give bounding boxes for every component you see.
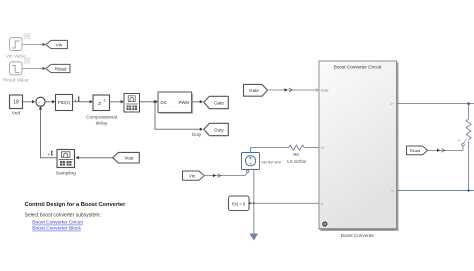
junction node at load top: [467, 102, 470, 105]
svg-text:Duty: Duty: [192, 132, 202, 137]
unit delay block z^-1: [93, 95, 110, 111]
PID controller block: [56, 95, 73, 111]
svg-text:delay: delay: [96, 121, 108, 127]
goto tag Duty: [204, 123, 229, 135]
wire resistor to port 2-: [468, 141, 470, 191]
svg-text:Vin Value: Vin Value: [6, 54, 26, 60]
svg-text:f(x) = 0: f(x) = 0: [232, 201, 246, 206]
svg-text:Gate: Gate: [249, 88, 259, 93]
wire rate transition to PWM with branch junction: [140, 101, 158, 103]
wire R6 to port 1+: [304, 147, 318, 149]
svg-text:Sampling: Sampling: [56, 171, 76, 177]
wire Gate tag to subsystem port: [267, 89, 318, 91]
solver configuration block f(x)=0: [229, 196, 250, 211]
svg-text:Vin 5V-10V: Vin 5V-10V: [261, 160, 281, 165]
wire Vin Value to Vin tag: [22, 44, 43, 46]
step source block Rload Value: [10, 62, 23, 75]
wire source bottom to ground: [253, 170, 255, 235]
from tag Gate (to subsystem): [244, 84, 268, 96]
svg-text:18: 18: [13, 100, 19, 106]
constant block Vref value 18: [10, 95, 23, 109]
svg-text:Rload: Rload: [410, 148, 420, 153]
svg-text:x: x: [48, 153, 50, 157]
wire source top to R6: [251, 148, 289, 153]
svg-text:1+: 1+: [321, 146, 325, 150]
wire Vout tag to Sampling: [76, 157, 113, 159]
wire Rload Value to Rload tag: [22, 68, 43, 70]
wire Rload tag to PS port of variable resistor: [428, 146, 463, 150]
svg-text:DC: DC: [161, 100, 167, 105]
goto tag Rload: [46, 64, 70, 72]
svg-text:Duty: Duty: [214, 127, 224, 132]
svg-text:Boost Converter Block: Boost Converter Block: [32, 226, 81, 232]
svg-text:z: z: [98, 101, 101, 107]
feedback wire Sampling to sum: [41, 108, 58, 158]
from tag Vout: [113, 152, 140, 163]
step source block Vin Value: [10, 38, 23, 51]
svg-text:Control Design for a Boost Con: Control Design for a Boost Converter: [25, 202, 127, 208]
wire down to variable resistor: [468, 104, 470, 119]
svg-text:Computational: Computational: [86, 115, 117, 121]
svg-text:Boost Converter Circuit: Boost Converter Circuit: [334, 65, 382, 70]
svg-text:Boost Converter Circuit: Boost Converter Circuit: [32, 220, 83, 226]
wire port 2- horizontal: [397, 190, 474, 192]
wire port 2+ to load: [397, 103, 474, 105]
sample badge above Rload Value output: [25, 58, 31, 63]
wire solver to port 1-: [250, 202, 319, 204]
svg-text:PWM: PWM: [178, 100, 189, 105]
variable resistor Rload (zigzag): [466, 119, 471, 140]
svg-text:Vin: Vin: [189, 174, 196, 179]
wire PWM to Gate tag: [192, 101, 201, 103]
svg-text:Select boost converter subsyst: Select boost converter subsystem:: [25, 213, 101, 219]
svg-text:Rload: Rload: [54, 66, 66, 71]
from tag Vin (source control): [183, 171, 205, 180]
svg-text:Gate: Gate: [321, 89, 329, 93]
svg-text:Vref: Vref: [12, 111, 21, 117]
svg-text:Vout: Vout: [124, 156, 134, 161]
branch wire to Duty tag: [155, 102, 201, 130]
from tag Rload (to variable resistor): [407, 146, 428, 155]
svg-text:R: R: [458, 139, 461, 143]
PWM generator block: [158, 92, 192, 113]
goto tag Gate: [204, 96, 229, 108]
physical network badge: [322, 221, 327, 226]
svg-text:PID(z): PID(z): [58, 100, 71, 105]
wire Vref to sum: [23, 101, 33, 103]
wire delay to rate transition: [110, 101, 123, 103]
PWM generator block shadow: [160, 94, 193, 114]
svg-text:Gate: Gate: [214, 100, 224, 105]
sum junction: [36, 97, 45, 106]
svg-text:Boost Converter: Boost Converter: [341, 233, 375, 238]
wire sum to PID: [45, 101, 54, 103]
svg-text:Vin: Vin: [56, 42, 63, 47]
sample badge above Vin Value output: [25, 34, 31, 39]
svg-text:R6: R6: [293, 152, 299, 157]
resistor R6: [289, 145, 305, 150]
goto tag Vin: [46, 40, 68, 48]
controlled voltage source Vin 5V-10V: [242, 153, 260, 170]
sampling rate transition block: [57, 150, 75, 168]
svg-text:1.8 mOhm: 1.8 mOhm: [287, 159, 307, 164]
svg-text:Rload Value: Rload Value: [3, 78, 29, 84]
rate transition block (hold): [124, 94, 140, 113]
svg-text:-1: -1: [103, 99, 106, 103]
svg-text:2+: 2+: [390, 102, 394, 106]
wire Vin tag to voltage source PS port: [204, 173, 247, 176]
junction at solver wire crossing: [253, 202, 255, 204]
wire PID to computational delay: [73, 101, 92, 103]
ground arrow: [249, 234, 258, 241]
